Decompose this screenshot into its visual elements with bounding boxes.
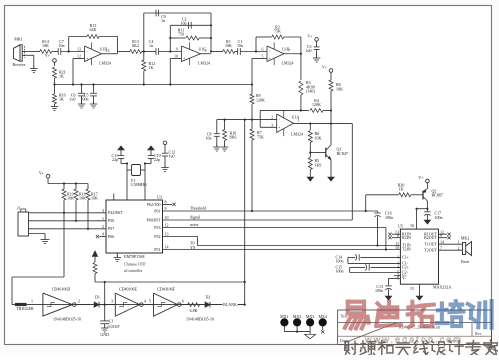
- svg-text:Threshold: Threshold: [190, 206, 206, 211]
- svg-text:750: 750: [178, 32, 184, 37]
- svg-text:10K: 10K: [225, 43, 232, 48]
- svg-text:100n: 100n: [81, 97, 89, 102]
- svg-text:10n: 10n: [237, 43, 243, 48]
- svg-text:10n: 10n: [206, 136, 212, 141]
- svg-text:Chinese OTP: Chinese OTP: [124, 262, 146, 267]
- svg-text:BLANK: BLANK: [223, 302, 237, 307]
- svg-text:C2+: C2+: [402, 265, 410, 270]
- svg-text:4: 4: [144, 299, 146, 304]
- svg-text:14: 14: [165, 245, 169, 250]
- svg-text:D2: D2: [206, 294, 211, 299]
- svg-text:C1: C1: [109, 318, 114, 323]
- svg-text:D1: D1: [95, 294, 100, 299]
- svg-text:Signal: Signal: [190, 215, 201, 220]
- svg-text:T2IN: T2IN: [402, 247, 411, 252]
- svg-text:1: 1: [458, 239, 460, 244]
- svg-text:3: 3: [111, 299, 113, 304]
- svg-text:1u0: 1u0: [169, 153, 175, 158]
- svg-text:LM324: LM324: [291, 132, 303, 137]
- svg-text:120K: 120K: [256, 97, 265, 102]
- svg-text:P50: P50: [108, 218, 114, 223]
- svg-text:LM324: LM324: [282, 61, 294, 66]
- svg-text:1: 1: [298, 118, 300, 123]
- svg-text:P52: P52: [154, 234, 160, 239]
- svg-text:MX3: MX3: [306, 314, 314, 319]
- svg-text:BC807: BC807: [432, 193, 443, 198]
- svg-text:3: 3: [271, 123, 273, 128]
- svg-text:P62/T00: P62/T00: [147, 202, 161, 207]
- svg-text:V+: V+: [39, 170, 45, 175]
- svg-text:6.8K: 6.8K: [190, 308, 198, 313]
- svg-text:2: 2: [102, 224, 104, 229]
- svg-text:T0: T0: [190, 241, 194, 246]
- svg-text:1: 1: [31, 299, 33, 304]
- svg-text:13: 13: [77, 47, 81, 52]
- svg-text:1N4148DO35-10: 1N4148DO35-10: [186, 316, 214, 321]
- svg-text:P97: P97: [108, 226, 114, 231]
- svg-text:P60/INT: P60/INT: [147, 217, 162, 222]
- svg-text:12: 12: [165, 223, 169, 228]
- svg-text:U3: U3: [157, 194, 162, 199]
- svg-text:LM324: LM324: [198, 61, 210, 66]
- svg-text:Emit: Emit: [461, 259, 470, 264]
- svg-text:5: 5: [262, 54, 264, 59]
- svg-text:4: 4: [397, 264, 399, 269]
- svg-text:MAX232A: MAX232A: [433, 285, 451, 290]
- svg-text:100n: 100n: [435, 215, 443, 220]
- svg-text:100n: 100n: [336, 269, 344, 274]
- svg-text:1N4148DO35-10: 1N4148DO35-10: [53, 316, 81, 321]
- svg-text:9: 9: [176, 47, 178, 52]
- svg-text:100n: 100n: [385, 215, 393, 220]
- svg-text:V+: V+: [322, 65, 328, 70]
- svg-text:EM78P156E: EM78P156E: [124, 254, 145, 259]
- svg-text:75K: 75K: [274, 29, 281, 34]
- svg-text:12: 12: [77, 54, 81, 59]
- svg-text:T1OUT: T1OUT: [424, 241, 437, 246]
- svg-text:62K: 62K: [90, 27, 97, 32]
- svg-text:10p: 10p: [181, 20, 187, 25]
- svg-text:U5: U5: [398, 224, 403, 229]
- svg-text:120K: 120K: [312, 102, 321, 107]
- svg-text:noise: noise: [190, 222, 199, 227]
- svg-text:3: 3: [102, 208, 104, 213]
- svg-text:1K: 1K: [59, 97, 64, 102]
- svg-text:CD40106F: CD40106F: [157, 287, 176, 292]
- svg-text:10K: 10K: [91, 196, 98, 201]
- svg-text:(140): (140): [306, 89, 315, 94]
- svg-text:CD40106D: CD40106D: [52, 287, 71, 292]
- svg-text:MX4: MX4: [318, 314, 326, 319]
- svg-text:13: 13: [165, 232, 169, 237]
- svg-text:BC847: BC847: [337, 151, 348, 156]
- svg-text:7: 7: [440, 246, 442, 251]
- svg-text:4: 4: [102, 232, 104, 237]
- svg-text:T2OUT: T2OUT: [424, 247, 437, 252]
- svg-text:MK1: MK1: [14, 37, 22, 42]
- svg-text:2: 2: [78, 299, 80, 304]
- svg-text:6K2: 6K2: [132, 43, 139, 48]
- svg-text:100n: 100n: [375, 288, 383, 293]
- svg-text:100n: 100n: [336, 259, 344, 264]
- svg-text:8: 8: [205, 48, 207, 53]
- svg-text:16: 16: [410, 223, 414, 228]
- svg-text:10K: 10K: [67, 196, 74, 201]
- svg-text:3.58MHG: 3.58MHG: [131, 182, 147, 187]
- svg-text:8: 8: [165, 200, 167, 205]
- svg-text:10K: 10K: [42, 43, 49, 48]
- svg-text:MX2: MX2: [293, 314, 301, 319]
- svg-text:R2OUT: R2OUT: [424, 235, 437, 240]
- svg-text:0.01UF: 0.01UF: [108, 324, 121, 329]
- svg-text:P53: P53: [154, 225, 160, 230]
- svg-text:22p: 22p: [154, 157, 160, 162]
- svg-text:9: 9: [440, 233, 442, 238]
- svg-text:10: 10: [174, 54, 178, 59]
- svg-text:1K9: 1K9: [315, 162, 322, 167]
- svg-text:V+: V+: [307, 34, 313, 39]
- svg-text:1K: 1K: [399, 186, 404, 191]
- svg-text:10n: 10n: [59, 43, 65, 48]
- svg-text:R2IN: R2IN: [402, 235, 411, 240]
- svg-text:1K: 1K: [59, 74, 64, 79]
- svg-text:9: 9: [165, 206, 167, 211]
- svg-text:1u0: 1u0: [70, 97, 76, 102]
- svg-text:14: 14: [440, 240, 444, 245]
- svg-text:2: 2: [271, 115, 273, 120]
- svg-text:1n: 1n: [149, 43, 153, 48]
- svg-text:uController: uController: [124, 268, 143, 273]
- svg-text:8: 8: [397, 233, 399, 238]
- svg-text:CD40106E: CD40106E: [119, 287, 138, 292]
- svg-text:P61: P61: [154, 208, 160, 213]
- svg-text:C1+: C1+: [402, 255, 410, 260]
- svg-text:J1: J1: [17, 206, 21, 211]
- svg-text:1: 1: [397, 254, 399, 259]
- svg-text:Rev: Rev: [475, 331, 481, 336]
- svg-text:Receive: Receive: [13, 62, 26, 67]
- svg-text:1u0: 1u0: [306, 48, 312, 53]
- svg-text:10K: 10K: [336, 86, 343, 91]
- svg-text:V+: V+: [45, 53, 51, 58]
- svg-text:22p: 22p: [112, 157, 118, 162]
- svg-text:6: 6: [182, 299, 184, 304]
- svg-text:1n: 1n: [161, 18, 165, 23]
- svg-text:6: 6: [262, 47, 264, 52]
- svg-text:V+: V+: [418, 175, 424, 180]
- svg-text:10: 10: [395, 245, 399, 250]
- svg-text:10K: 10K: [79, 196, 86, 201]
- svg-text:15: 15: [410, 286, 414, 291]
- svg-text:7: 7: [288, 48, 290, 53]
- svg-text:MX1: MX1: [280, 314, 288, 319]
- svg-text:14: 14: [106, 48, 110, 53]
- svg-text:2: 2: [458, 245, 460, 250]
- svg-text:5: 5: [149, 299, 151, 304]
- svg-text:10: 10: [165, 215, 169, 220]
- svg-text:GND: GND: [100, 332, 109, 337]
- svg-text:1: 1: [102, 216, 104, 221]
- svg-text:8K6: 8K6: [230, 135, 237, 140]
- svg-text:75K: 75K: [257, 134, 264, 139]
- svg-text:P42/RST: P42/RST: [108, 210, 123, 215]
- svg-text:TRIGGER: TRIGGER: [16, 306, 34, 311]
- svg-text:MK2: MK2: [461, 235, 469, 240]
- svg-text:1K: 1K: [149, 65, 154, 70]
- svg-text:P66: P66: [108, 234, 114, 239]
- svg-text:LM324: LM324: [99, 61, 111, 66]
- svg-text:10K: 10K: [315, 135, 322, 140]
- svg-text:P51: P51: [154, 247, 160, 252]
- svg-text:V-: V-: [402, 276, 407, 281]
